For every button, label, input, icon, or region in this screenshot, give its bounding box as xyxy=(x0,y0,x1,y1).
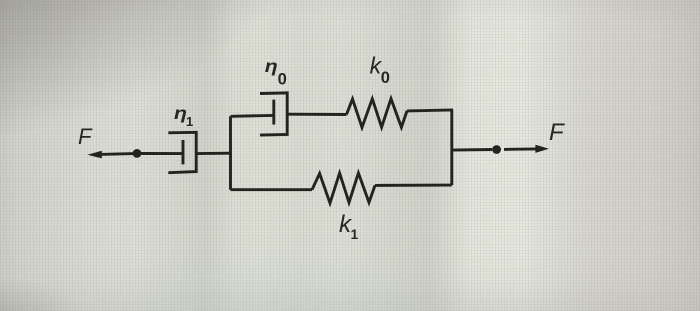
wire: bottom branch left to spring k1 xyxy=(231,188,313,191)
svg-text:F: F xyxy=(78,124,93,149)
label k1 xyxy=(339,211,359,242)
spring k0 xyxy=(347,99,408,128)
label eta0 xyxy=(265,56,287,88)
damper eta0 cylinder xyxy=(260,93,287,135)
label k0 xyxy=(370,53,390,87)
spring k1 xyxy=(312,173,375,203)
wire: damper eta1 to parallel block xyxy=(196,152,232,155)
svg-text:1: 1 xyxy=(186,114,193,129)
label eta1 xyxy=(174,103,193,129)
parallel block left vertical wire xyxy=(229,116,232,190)
svg-text:0: 0 xyxy=(278,71,287,89)
svg-text:η: η xyxy=(265,56,278,76)
wire: block to right node xyxy=(452,148,492,152)
wire: node to damper eta1 xyxy=(141,152,183,155)
node dot (left) xyxy=(133,149,142,158)
svg-text:0: 0 xyxy=(381,69,390,87)
wire: spring k1 to right vertical xyxy=(375,184,452,187)
parallel block right vertical wire xyxy=(450,110,453,185)
damper eta1 piston plate xyxy=(182,140,185,164)
svg-text:F: F xyxy=(549,119,565,146)
wire: spring k0 to right vertical xyxy=(407,110,453,111)
node dot (right) xyxy=(492,145,501,154)
right force arrow xyxy=(504,145,549,153)
svg-text:1: 1 xyxy=(351,227,359,242)
wire: damper eta0 to spring k0 xyxy=(287,113,346,116)
wire: top branch to damper eta0 xyxy=(231,114,274,118)
damper eta1 cylinder xyxy=(168,132,196,172)
damper eta0 piston plate xyxy=(272,100,275,125)
left force arrow xyxy=(87,151,134,159)
